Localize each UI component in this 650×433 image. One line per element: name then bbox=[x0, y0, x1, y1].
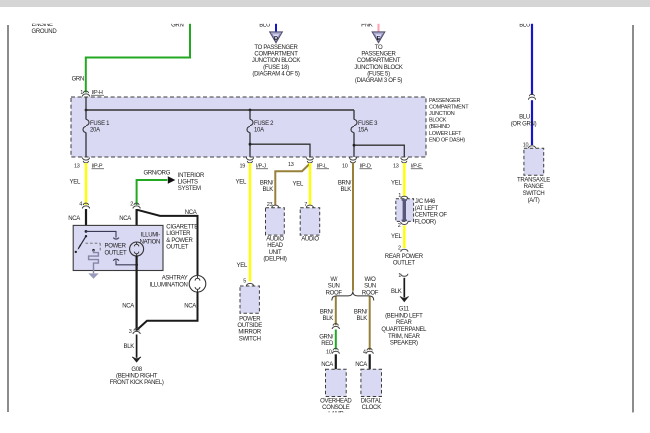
passenger compartment junction block bbox=[71, 97, 426, 157]
wire BLK to G08 bbox=[136, 335, 138, 358]
ground G08 bbox=[133, 358, 140, 362]
svg-text:10: 10 bbox=[342, 163, 348, 169]
svg-text:BLK: BLK bbox=[357, 316, 368, 322]
toolbar bar top bbox=[0, 0, 650, 7]
svg-text:G11: G11 bbox=[399, 307, 410, 313]
wire BRN/BLK right branch (w/o sun roof) bbox=[369, 297, 371, 351]
svg-text:I/P-D: I/P-D bbox=[360, 163, 371, 169]
wire fuse2 branch to I/P-L bbox=[250, 144, 310, 157]
wire PNK to arrow E bbox=[378, 23, 380, 32]
svg-text:(AT LEFT: (AT LEFT bbox=[415, 206, 439, 212]
svg-text:2: 2 bbox=[130, 201, 133, 207]
wire BRN/BLK left branch (w/ sun roof) bbox=[335, 297, 337, 326]
fuse F2 10A bbox=[249, 110, 251, 157]
svg-text:NCA: NCA bbox=[321, 362, 333, 368]
svg-text:(A/T): (A/T) bbox=[528, 198, 540, 204]
pin 13 I/P-E bbox=[401, 158, 408, 163]
svg-text:BLK: BLK bbox=[263, 187, 274, 193]
svg-text:(DIAGRAM 4 OF 5): (DIAGRAM 4 OF 5) bbox=[252, 71, 300, 77]
wire BLU to arrow D bbox=[275, 23, 277, 32]
junction bus bar inside J/C M46 bbox=[403, 200, 406, 221]
svg-text:QUARTERPANEL: QUARTERPANEL bbox=[381, 327, 427, 333]
svg-text:SWITCH: SWITCH bbox=[239, 336, 261, 342]
svg-text:YEL: YEL bbox=[236, 180, 247, 186]
svg-text:W/O: W/O bbox=[364, 277, 376, 283]
svg-text:REAR: REAR bbox=[396, 320, 412, 326]
svg-text:GROUND: GROUND bbox=[32, 29, 58, 35]
pin 13 I/P-P bbox=[82, 158, 89, 163]
wire fuse3 branch to I/P-E bbox=[354, 145, 404, 157]
svg-text:HEAD: HEAD bbox=[267, 243, 283, 249]
svg-text:BLK: BLK bbox=[323, 316, 334, 322]
split brace bbox=[332, 291, 374, 300]
svg-text:(BEHIND: (BEHIND bbox=[429, 124, 450, 130]
svg-text:ILLUMINATION: ILLUMINATION bbox=[150, 282, 188, 288]
junction connector J/C M46 bbox=[396, 199, 414, 222]
svg-text:DIGITAL: DIGITAL bbox=[361, 398, 383, 404]
svg-text:GRN/ORG: GRN/ORG bbox=[144, 171, 171, 177]
svg-text:FUSE 3: FUSE 3 bbox=[358, 121, 378, 127]
svg-text:(FUSE 18): (FUSE 18) bbox=[263, 65, 289, 71]
svg-text:13: 13 bbox=[393, 163, 399, 169]
svg-text:10: 10 bbox=[523, 142, 529, 148]
svg-text:NCA: NCA bbox=[119, 216, 131, 222]
svg-text:POWER: POWER bbox=[239, 316, 261, 322]
svg-text:LOWER LEFT: LOWER LEFT bbox=[429, 131, 462, 137]
svg-text:AUDIO: AUDIO bbox=[266, 237, 284, 243]
bottom clip cover bbox=[0, 412, 650, 433]
svg-text:GRN/: GRN/ bbox=[319, 334, 333, 340]
node power outlet feed junction bbox=[85, 230, 88, 233]
wire YEL I/P-E to J/C M46 bbox=[403, 163, 405, 196]
ground G11 bbox=[401, 298, 408, 302]
svg-text:COMPARTMENT: COMPARTMENT bbox=[429, 104, 469, 110]
svg-text:BLU: BLU bbox=[519, 115, 530, 121]
svg-text:FUSE 2: FUSE 2 bbox=[254, 121, 274, 127]
svg-text:OUTSIDE: OUTSIDE bbox=[237, 323, 262, 329]
wire YEL I/P-L to audio bbox=[309, 163, 311, 205]
lamp illumination (cigarette lighter) bbox=[130, 242, 144, 256]
pin 19 I/P-J bbox=[246, 158, 253, 163]
svg-text:(BEHIND LEFT: (BEHIND LEFT bbox=[385, 313, 423, 319]
svg-text:LIGHTER: LIGHTER bbox=[166, 231, 191, 237]
wire YEL to rear power outlet bbox=[403, 226, 405, 249]
dashed mechanical link bbox=[86, 243, 101, 252]
svg-text:YEL: YEL bbox=[237, 263, 248, 269]
svg-text:NCA: NCA bbox=[355, 362, 367, 368]
wire YEL I/P-P to power outlet bbox=[85, 163, 87, 205]
wire GRN from engine ground bbox=[86, 23, 190, 93]
power outlet contact top bbox=[86, 231, 119, 239]
svg-text:YEL: YEL bbox=[391, 181, 402, 187]
svg-text:2: 2 bbox=[398, 223, 401, 229]
svg-text:SYSTEM: SYSTEM bbox=[178, 186, 201, 192]
right page rule bbox=[632, 25, 634, 413]
svg-text:FRONT KICK PANEL): FRONT KICK PANEL) bbox=[110, 380, 164, 386]
svg-text:BRN/: BRN/ bbox=[320, 309, 334, 315]
svg-text:OVERHEAD: OVERHEAD bbox=[320, 398, 352, 404]
overhead console lamp box bbox=[326, 369, 347, 396]
svg-text:E: E bbox=[377, 36, 381, 42]
svg-text:MIRROR: MIRROR bbox=[238, 330, 261, 336]
top clip cover bbox=[0, 7, 650, 24]
svg-text:(DELPHI): (DELPHI) bbox=[263, 257, 287, 263]
svg-text:FLOOR): FLOOR) bbox=[415, 219, 436, 225]
wire BLK to G11 bbox=[403, 278, 405, 298]
svg-text:4: 4 bbox=[79, 201, 82, 207]
svg-text:I/P-P: I/P-P bbox=[92, 163, 103, 169]
svg-text:D: D bbox=[274, 36, 278, 42]
wire NCA to digital clock bbox=[369, 354, 371, 369]
svg-text:RED: RED bbox=[321, 341, 334, 347]
svg-text:INTERIOR: INTERIOR bbox=[178, 173, 205, 179]
svg-text:PASSENGER: PASSENGER bbox=[361, 52, 396, 58]
svg-text:TO PASSENGER: TO PASSENGER bbox=[254, 45, 298, 51]
svg-text:I/P-J: I/P-J bbox=[256, 163, 266, 169]
svg-text:COMPARTMENT: COMPARTMENT bbox=[357, 58, 401, 64]
svg-text:NATION: NATION bbox=[140, 239, 160, 245]
svg-text:POWER: POWER bbox=[105, 243, 127, 249]
svg-text:FUSE 1: FUSE 1 bbox=[90, 121, 110, 127]
svg-text:W/: W/ bbox=[330, 277, 337, 283]
svg-text:TO: TO bbox=[375, 45, 383, 51]
off-page arrow D bbox=[270, 32, 282, 43]
bus wire inside block bbox=[86, 109, 354, 111]
fuse F1 20A bbox=[85, 97, 87, 157]
svg-text:OUTLET: OUTLET bbox=[166, 245, 189, 251]
left page rule bbox=[7, 25, 9, 412]
audio box bbox=[300, 208, 320, 235]
svg-text:NCA: NCA bbox=[68, 216, 80, 222]
transaxle range switch box bbox=[524, 148, 544, 175]
svg-text:G08: G08 bbox=[131, 367, 142, 373]
pin 10 I/P-D bbox=[349, 158, 356, 163]
svg-text:BRN/: BRN/ bbox=[354, 309, 368, 315]
off-page arrow E bbox=[372, 32, 384, 43]
svg-text:1: 1 bbox=[80, 90, 83, 96]
wire GRN/ORG branch to interior lights bbox=[137, 180, 168, 205]
svg-text:NCA: NCA bbox=[184, 304, 196, 310]
switch SW inside power outlet bbox=[78, 236, 86, 249]
svg-text:(OR GRN): (OR GRN) bbox=[511, 121, 537, 127]
svg-text:BLOCK: BLOCK bbox=[429, 118, 447, 124]
svg-text:20A: 20A bbox=[90, 128, 100, 134]
svg-text:5: 5 bbox=[243, 279, 246, 285]
wire BRN/BLK I/P-D to sunroof split bbox=[352, 163, 354, 291]
svg-text:CIGARETTE: CIGARETTE bbox=[166, 224, 198, 230]
svg-text:10: 10 bbox=[326, 349, 332, 355]
audio head unit box bbox=[266, 208, 285, 235]
svg-text:CLOCK: CLOCK bbox=[362, 405, 381, 411]
svg-text:PASSENGER: PASSENGER bbox=[429, 98, 460, 104]
svg-text:SWITCH: SWITCH bbox=[523, 191, 545, 197]
svg-text:19: 19 bbox=[239, 163, 245, 169]
svg-text:OUTLET: OUTLET bbox=[105, 250, 128, 256]
wire ashtray return to pin 3 bbox=[137, 292, 197, 330]
svg-text:SUN: SUN bbox=[328, 284, 340, 290]
svg-text:(BEHIND RIGHT: (BEHIND RIGHT bbox=[116, 374, 158, 380]
svg-text:TRIM, NEAR: TRIM, NEAR bbox=[388, 334, 421, 340]
svg-text:NCA: NCA bbox=[122, 304, 134, 310]
svg-text:OUTLET: OUTLET bbox=[393, 261, 416, 267]
wire NCA to overhead console lamp bbox=[335, 354, 337, 369]
svg-text:BRN/: BRN/ bbox=[338, 181, 352, 187]
svg-text:NCA: NCA bbox=[185, 210, 197, 216]
svg-text:3: 3 bbox=[129, 329, 132, 335]
svg-text:ASHTRAY: ASHTRAY bbox=[162, 275, 188, 281]
svg-text:(DIAGRAM 3 OF 5): (DIAGRAM 3 OF 5) bbox=[355, 78, 403, 84]
pin 13 I/P-L bbox=[306, 158, 313, 163]
wire BLU (OR GRN) to transaxle range switch bbox=[531, 100, 533, 145]
power outside mirror switch bbox=[240, 286, 259, 313]
power outlet box bbox=[73, 225, 163, 270]
svg-text:ILLUMI-: ILLUMI- bbox=[141, 232, 161, 238]
wire BLU to transaxle range switch bbox=[531, 23, 533, 95]
svg-text:13: 13 bbox=[74, 163, 80, 169]
svg-text:SUN: SUN bbox=[364, 284, 376, 290]
svg-text:BLK: BLK bbox=[391, 289, 402, 295]
arrow to interior lights system bbox=[168, 176, 176, 183]
svg-text:TRANSAXLE: TRANSAXLE bbox=[517, 177, 550, 183]
svg-text:JUNCTION: JUNCTION bbox=[429, 111, 455, 117]
svg-text:COMPARTMENT: COMPARTMENT bbox=[254, 52, 298, 58]
wire GRN/RED to overhead console bbox=[335, 330, 337, 350]
svg-text:RANGE: RANGE bbox=[524, 184, 544, 190]
svg-text:GRN: GRN bbox=[72, 77, 84, 83]
svg-text:JUNCTION BLOCK: JUNCTION BLOCK bbox=[354, 65, 402, 71]
wire YEL I/P-J to mirror switch bbox=[249, 163, 251, 282]
svg-text:AUDIO: AUDIO bbox=[301, 237, 319, 243]
svg-text:I/P-L: I/P-L bbox=[317, 163, 327, 169]
svg-text:& POWER: & POWER bbox=[166, 238, 193, 244]
wire NCA pin2 to illumination lamp bbox=[136, 209, 138, 242]
pin 1 I/P-H bbox=[82, 91, 89, 96]
inline connector BRN to GRN bbox=[332, 324, 339, 329]
svg-text:JUNCTION BLOCK: JUNCTION BLOCK bbox=[252, 58, 300, 64]
inline connector on BLU wire bbox=[528, 94, 535, 99]
svg-text:BLK: BLK bbox=[124, 344, 135, 350]
svg-text:15A: 15A bbox=[358, 128, 368, 134]
svg-text:4: 4 bbox=[363, 349, 366, 355]
svg-text:LIGHTS: LIGHTS bbox=[178, 180, 198, 186]
svg-text:BRN/: BRN/ bbox=[260, 181, 274, 187]
wire lamp to bottom junction bbox=[136, 256, 138, 331]
ground below power outlet bbox=[88, 273, 98, 278]
wire NCA pin4 to power outlet contact bbox=[85, 209, 87, 231]
svg-text:YEL: YEL bbox=[70, 180, 81, 186]
digital clock box bbox=[361, 369, 382, 396]
svg-text:CENTER OF: CENTER OF bbox=[415, 213, 448, 219]
svg-text:YEL: YEL bbox=[293, 182, 304, 188]
svg-text:10A: 10A bbox=[254, 128, 264, 134]
svg-text:BLK: BLK bbox=[341, 187, 352, 193]
svg-text:UNIT: UNIT bbox=[269, 250, 282, 256]
heater element (cigarette lighter) bbox=[92, 249, 95, 252]
svg-text:YEL: YEL bbox=[391, 234, 402, 240]
power outlet contact bottom bbox=[113, 259, 136, 265]
svg-text:END OF DASH): END OF DASH) bbox=[429, 137, 465, 143]
wire BRN/BLK I/P-L to audio head unit bbox=[275, 164, 310, 206]
fuse F3 15A bbox=[353, 110, 355, 157]
svg-text:SPEAKER): SPEAKER) bbox=[390, 341, 418, 347]
wire NCA branch to ashtray illumination bbox=[137, 210, 197, 275]
svg-text:J/C M46: J/C M46 bbox=[415, 199, 436, 205]
svg-text:I/P-E: I/P-E bbox=[411, 163, 422, 169]
svg-text:13: 13 bbox=[288, 162, 294, 168]
lamp ashtray illumination bbox=[189, 276, 206, 293]
svg-text:(FUSE 5): (FUSE 5) bbox=[367, 71, 390, 77]
svg-text:REAR POWER: REAR POWER bbox=[385, 254, 424, 260]
svg-text:CONSOLE: CONSOLE bbox=[322, 405, 350, 411]
